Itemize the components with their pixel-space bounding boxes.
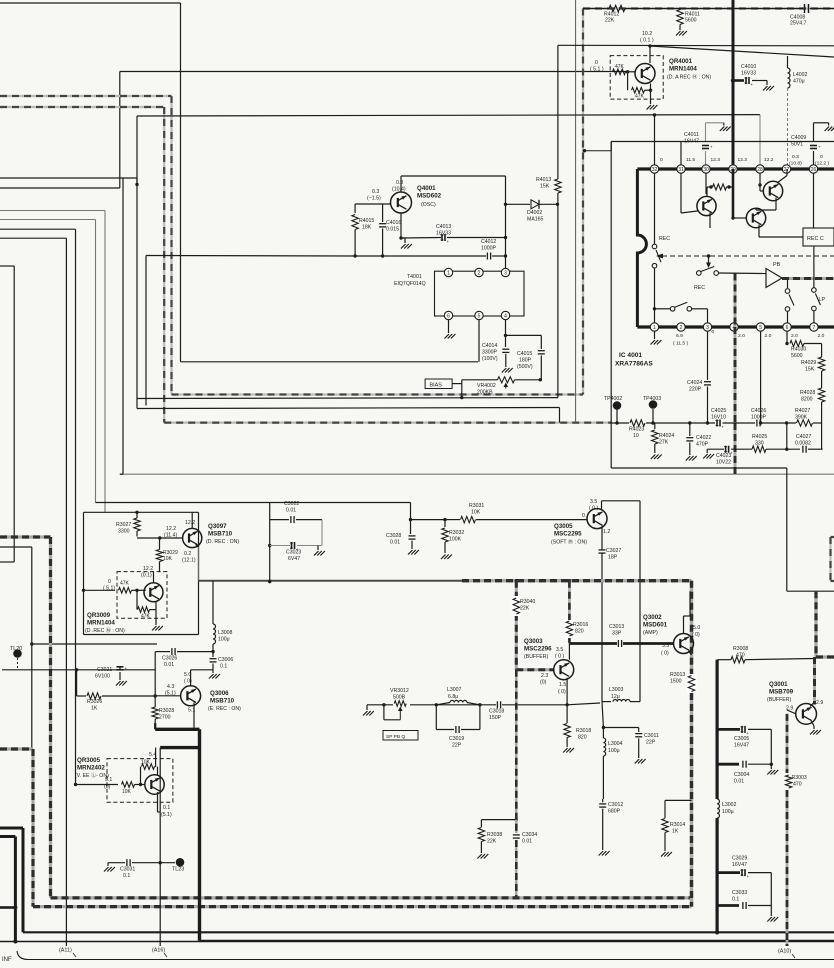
svg-text:L4002: L4002 — [793, 72, 808, 78]
svg-text:R4024: R4024 — [659, 433, 674, 439]
wire Q4001 base — [355, 203, 390, 205]
svg-text:50V1: 50V1 — [791, 142, 803, 148]
svg-text:330: 330 — [755, 441, 764, 447]
svg-text:500B: 500B — [393, 695, 406, 701]
svg-text:15K: 15K — [805, 367, 815, 373]
ground QR3009 — [152, 626, 157, 631]
transistor QR4001 — [635, 64, 655, 84]
svg-text:10K: 10K — [163, 556, 173, 562]
box IC section — [610, 142, 612, 469]
svg-text:C3004: C3004 — [734, 772, 749, 778]
svg-text:R3031: R3031 — [469, 503, 484, 509]
svg-text:1: 1 — [653, 325, 656, 331]
svg-text:16V33: 16V33 — [741, 71, 756, 77]
svg-text:0.3: 0.3 — [792, 154, 799, 160]
svg-text:C3023: C3023 — [286, 550, 301, 556]
svg-text:D4002: D4002 — [527, 210, 542, 216]
svg-text:+: + — [751, 82, 754, 87]
svg-text:L3008: L3008 — [218, 630, 233, 636]
wire QR4001 emitter — [650, 84, 652, 105]
svg-text:16V10: 16V10 — [711, 415, 726, 421]
ic IC4001 top bar — [637, 167, 834, 170]
resistor 47K QR4001 base — [613, 69, 626, 75]
svg-text:( 0.1 ): ( 0.1 ) — [640, 38, 654, 44]
capacitor C4009 — [813, 123, 815, 141]
svg-text:0: 0 — [712, 329, 715, 335]
svg-text:C4010: C4010 — [741, 64, 756, 70]
wire entry left y178 — [0, 177, 137, 179]
svg-text:1000P: 1000P — [751, 415, 767, 421]
svg-text:0: 0 — [820, 154, 823, 160]
switch REC internal — [652, 244, 657, 249]
inductor L4002 — [787, 56, 789, 68]
wire Q3003 emitter — [566, 678, 568, 705]
svg-text:REC: REC — [659, 236, 670, 242]
resistor R4011 — [677, 10, 683, 25]
capacitor C4012 — [486, 253, 488, 260]
wire Q3097 base — [137, 537, 183, 539]
wire top rail y72 — [120, 71, 628, 73]
testpoint TL23 — [176, 858, 185, 867]
capacitor C3013 — [617, 640, 619, 647]
capacitor C3005 — [717, 728, 740, 731]
pin 31 IC4001 — [677, 165, 685, 173]
svg-text:12.2: 12.2 — [166, 526, 176, 532]
wire R3014 branch — [665, 799, 692, 801]
svg-text:3.5: 3.5 — [590, 499, 597, 505]
resistor R3032 — [444, 520, 446, 527]
svg-text:22K: 22K — [487, 839, 497, 845]
pin 30 IC4001 — [702, 165, 710, 173]
svg-text:C4011: C4011 — [684, 132, 699, 138]
svg-text:L3003: L3003 — [609, 687, 624, 693]
pin 6 T4001 — [444, 311, 452, 319]
wire PB out — [782, 277, 834, 280]
wire T1 collector resistor — [706, 187, 708, 197]
svg-text:0.01: 0.01 — [286, 508, 296, 514]
ground C4022 — [686, 456, 691, 461]
svg-text:MSC2295: MSC2295 — [554, 531, 582, 538]
box Q4001 bottom — [136, 116, 138, 409]
ground C3028 — [408, 550, 413, 555]
wire Q3001 emitter — [811, 721, 814, 727]
svg-text:C4016: C4016 — [386, 220, 401, 226]
svg-text:18K: 18K — [362, 225, 372, 231]
wire pin31 internal — [680, 142, 682, 165]
svg-text:(OSC): (OSC) — [421, 202, 436, 208]
shield gray1 — [0, 535, 51, 538]
svg-text:Q3003: Q3003 — [524, 638, 543, 645]
svg-text:8200: 8200 — [801, 397, 813, 403]
svg-text:C3005: C3005 — [734, 736, 749, 742]
wire pin1 ground — [654, 331, 656, 339]
svg-text:(0.1): (0.1) — [141, 573, 152, 579]
svg-text:MSD602: MSD602 — [417, 193, 442, 200]
wire gray right edge — [690, 581, 693, 674]
wire bottom y941 — [0, 941, 834, 943]
svg-text:100μ: 100μ — [218, 637, 230, 643]
wire pin32 top feed — [654, 115, 656, 165]
svg-text:25V4.7: 25V4.7 — [790, 21, 807, 27]
svg-text:1K: 1K — [91, 706, 98, 712]
wire BIAS stub — [452, 383, 462, 385]
svg-text:( 11.5 ): ( 11.5 ) — [673, 341, 689, 347]
svg-text:3: 3 — [706, 325, 709, 331]
svg-text:22K: 22K — [520, 606, 530, 612]
pin 1 T4001 — [444, 268, 452, 276]
wire vertical x119.8 — [119, 72, 121, 189]
wire pin30 internal — [705, 173, 707, 194]
capacitor C3029 — [717, 871, 740, 874]
svg-text:7: 7 — [813, 325, 816, 331]
svg-text:(D. REC : ON): (D. REC : ON) — [206, 539, 239, 545]
capacitor C4014 — [502, 348, 509, 350]
svg-text:R3008: R3008 — [733, 646, 748, 652]
svg-text:0.1: 0.1 — [123, 873, 130, 879]
svg-text:INF: INF — [2, 957, 12, 963]
svg-text:Q3005: Q3005 — [554, 523, 573, 530]
svg-text:12.3: 12.3 — [738, 157, 748, 163]
svg-text:REC C: REC C — [807, 236, 824, 242]
wire x269 vertical — [269, 503, 271, 520]
wire C4015 branch — [506, 334, 542, 336]
svg-text:C4024: C4024 — [687, 380, 702, 386]
svg-text:QR3005: QR3005 — [77, 757, 101, 764]
svg-text:XRA7786AS: XRA7786AS — [615, 361, 653, 368]
capacitor C3021 — [119, 666, 121, 670]
svg-text:2: 2 — [478, 270, 481, 276]
shield dashed box top-right — [582, 9, 584, 395]
svg-text:+: + — [722, 425, 725, 430]
svg-text:R4025: R4025 — [752, 434, 767, 440]
svg-text:0.01: 0.01 — [390, 540, 400, 546]
svg-text:1500: 1500 — [670, 679, 682, 685]
svg-text:(BUFFER): (BUFFER) — [767, 697, 791, 703]
svg-text:1.2: 1.2 — [603, 529, 610, 535]
svg-text:MSC2296: MSC2296 — [524, 646, 552, 653]
svg-text:10K: 10K — [122, 789, 132, 795]
svg-text:0.1: 0.1 — [163, 805, 170, 811]
capacitor C4027 — [802, 446, 804, 453]
box Q3097 — [84, 511, 199, 513]
svg-text:2.9: 2.9 — [816, 700, 823, 706]
wire black step1 — [0, 827, 23, 830]
resistor R3008 — [731, 657, 745, 663]
svg-text:2.0: 2.0 — [765, 333, 772, 339]
box REC CTL — [803, 228, 834, 246]
svg-text:TL23: TL23 — [172, 867, 184, 873]
svg-text:2.0: 2.0 — [791, 333, 798, 339]
wire y449 branch — [707, 448, 724, 450]
svg-text:31: 31 — [678, 167, 684, 173]
svg-text:27K: 27K — [659, 440, 669, 446]
resistor 10K QR3005 top — [142, 764, 155, 770]
svg-text:220P: 220P — [689, 387, 702, 393]
pin 2 T4001 — [475, 268, 483, 276]
potentiometer VR3012 — [394, 701, 406, 707]
svg-text:C3031: C3031 — [120, 867, 135, 873]
svg-text:0.01: 0.01 — [164, 662, 174, 668]
wire pin6 gnd — [448, 320, 450, 333]
svg-text:0.1: 0.1 — [732, 897, 739, 903]
wire branch y644 — [30, 642, 33, 645]
svg-text:0: 0 — [108, 579, 111, 585]
wire exit left y188 — [0, 187, 120, 189]
wire pin4 down — [505, 320, 507, 347]
svg-text:(V. EE Ⓛ- ON): (V. EE Ⓛ- ON) — [75, 771, 109, 779]
svg-text:R3040: R3040 — [520, 599, 535, 605]
svg-text:100μ: 100μ — [608, 748, 620, 754]
svg-text:( 0): ( 0) — [661, 651, 669, 657]
capacitor C4024 — [707, 331, 709, 380]
svg-text:22K: 22K — [605, 18, 615, 24]
pin 3 T4001 — [501, 268, 509, 276]
ground C3023 — [314, 551, 319, 556]
svg-text:16V47: 16V47 — [732, 862, 747, 868]
transistor Q3006 — [181, 686, 201, 706]
svg-text:33P: 33P — [612, 631, 622, 637]
ground pin1 — [651, 340, 656, 345]
wire gray long y474 — [120, 473, 834, 475]
svg-text:VR4002: VR4002 — [477, 383, 496, 389]
shield dashed B — [0, 106, 164, 108]
switch SW6 — [787, 280, 789, 288]
svg-text:R3028: R3028 — [159, 708, 174, 714]
svg-text:5.0: 5.0 — [693, 625, 700, 631]
wire T2 collector — [777, 176, 787, 184]
ground QR4001 — [647, 105, 652, 110]
svg-text:R3016: R3016 — [573, 622, 588, 628]
capacitor C4010 — [731, 78, 735, 82]
resistor 47K QR4001 fb — [627, 72, 629, 90]
svg-text:MA165: MA165 — [527, 217, 544, 223]
wire y115 bus — [137, 115, 760, 116]
svg-text:3.5: 3.5 — [556, 647, 563, 653]
svg-text:+: + — [747, 874, 750, 879]
capacitor C3012 — [599, 803, 606, 805]
wire thick pin4 shield — [734, 274, 737, 328]
wire C-shape left — [0, 265, 14, 267]
inductor L3003 — [602, 701, 611, 703]
resistor R3026 — [87, 693, 101, 699]
box QR4001 dashed — [610, 56, 663, 100]
switch SW7 LP — [813, 246, 815, 288]
wire TL20 rail — [2, 669, 155, 671]
svg-text:6V47: 6V47 — [288, 556, 300, 562]
wire L3004 column — [602, 702, 603, 728]
resistor R3013 — [687, 674, 697, 693]
svg-text:10K: 10K — [141, 760, 151, 766]
svg-text:1000P: 1000P — [481, 246, 497, 252]
svg-text:(5.1): (5.1) — [161, 812, 172, 818]
wire Q3005 collector — [601, 501, 603, 511]
svg-text:T4001: T4001 — [407, 274, 422, 280]
svg-text:QR4001: QR4001 — [669, 58, 693, 65]
wire shield stub — [583, 150, 611, 152]
svg-text:22P: 22P — [646, 740, 656, 746]
capacitor C4022 — [689, 423, 691, 436]
svg-text:L3007: L3007 — [447, 687, 462, 693]
capacitor C3031 — [126, 859, 128, 866]
resistor 47K QR3009 — [119, 588, 132, 594]
ground R4011 — [676, 31, 681, 36]
svg-text:( 5.1 ): ( 5.1 ) — [590, 67, 604, 73]
wire Q3097 collector — [191, 512, 193, 528]
ground C4014 — [502, 368, 507, 373]
capacitor C3006 — [212, 652, 214, 657]
wire QR3005 collector — [157, 767, 159, 775]
svg-text:10.2: 10.2 — [642, 31, 652, 37]
svg-text:C3013: C3013 — [609, 624, 624, 630]
svg-text:11.5: 11.5 — [686, 157, 695, 163]
svg-text:C4025: C4025 — [711, 408, 726, 414]
wire thick elbow2 — [160, 746, 199, 749]
svg-text:Q3097: Q3097 — [208, 523, 227, 530]
resistor R4024 — [654, 423, 656, 429]
svg-text:150P: 150P — [489, 715, 502, 721]
ground C3011 — [635, 759, 640, 764]
capacitor C4026 — [756, 420, 758, 427]
ground C3006 — [209, 674, 214, 679]
wire T1 emitter — [709, 213, 711, 229]
svg-text:( 0 ): ( 0 ) — [555, 654, 564, 660]
resistor R3016 — [568, 581, 571, 644]
wire R3040 shield branch — [515, 581, 518, 670]
ground C4011 — [720, 127, 725, 132]
wire dashed control — [662, 255, 834, 257]
pin 28 IC4001 — [756, 165, 764, 173]
svg-text:30: 30 — [703, 167, 709, 173]
wire Q3001 collector — [810, 703, 814, 707]
wire bus to T4001 pin5 — [181, 361, 479, 363]
wire pin1 internal — [654, 173, 656, 244]
capacitor C4015 — [538, 350, 545, 352]
wire Q3002 emitter — [689, 651, 692, 656]
capacitor C4011 — [705, 123, 707, 141]
pin 32 IC4001 — [650, 165, 658, 173]
wire x575 vertical — [575, 0, 577, 423]
svg-text:MSB710: MSB710 — [210, 698, 235, 705]
pin 1 IC4001 — [650, 323, 658, 331]
svg-text:5600: 5600 — [791, 353, 803, 359]
amp PB — [766, 269, 782, 288]
svg-text:C3026: C3026 — [162, 656, 177, 662]
svg-text:4: 4 — [504, 313, 507, 319]
svg-text:4.3: 4.3 — [167, 684, 174, 690]
testpoint TP4003 — [649, 400, 658, 409]
svg-text:R3027: R3027 — [116, 522, 131, 528]
svg-text:EIQ7QF014Q: EIQ7QF014Q — [394, 281, 426, 287]
wire pin3 vertical — [505, 176, 507, 269]
svg-text:(10.8): (10.8) — [789, 161, 802, 167]
capacitor C3026 — [171, 648, 173, 655]
wire x410 down — [410, 503, 412, 520]
svg-text:470μ: 470μ — [793, 79, 805, 85]
wire left y547 — [0, 546, 32, 548]
svg-text:0.3: 0.3 — [372, 189, 379, 195]
switch REC2 — [697, 271, 702, 276]
wire QR3005 base rail — [74, 783, 77, 786]
wire y397 to R4013 column — [137, 397, 558, 400]
svg-text:2.0: 2.0 — [818, 333, 825, 339]
svg-text:(SOFT Ⓡ : ON): (SOFT Ⓡ : ON) — [551, 538, 587, 546]
box QR3009 dashed — [117, 572, 167, 619]
transistor IC-T3 — [746, 208, 765, 227]
svg-text:R4027: R4027 — [795, 408, 810, 414]
wire main y423 — [612, 422, 629, 424]
wire pin28 internal — [759, 173, 761, 191]
svg-text:5: 5 — [478, 313, 481, 319]
pin 4 T4001 — [501, 311, 509, 319]
transistor Q3003 — [554, 660, 574, 680]
svg-text:0.015: 0.015 — [386, 227, 399, 233]
wire bottom y958 — [17, 951, 834, 960]
ic IC4001 left edge — [637, 169, 646, 327]
ground R4024 — [651, 455, 656, 460]
ground C4010 — [763, 86, 768, 91]
transistor Q3097 — [183, 528, 202, 547]
svg-text:R3013: R3013 — [670, 672, 685, 678]
resistor R3031 — [461, 516, 476, 522]
wire L4002 to pin27 — [787, 88, 789, 165]
ic IC4001 bottom bar — [637, 325, 834, 328]
ground C3012 — [599, 851, 604, 856]
pin 4 IC4001 — [730, 323, 738, 331]
svg-text:VR3012: VR3012 — [390, 688, 409, 694]
svg-text:(A10): (A10) — [778, 949, 791, 955]
wire staircase y238 A11 — [0, 237, 66, 239]
svg-text:16V47: 16V47 — [734, 743, 749, 749]
svg-text:C4015: C4015 — [517, 351, 532, 357]
svg-text:( 0): ( 0) — [692, 632, 700, 638]
svg-text:1.5: 1.5 — [559, 682, 566, 688]
box SP PB Q — [383, 731, 418, 741]
wire R3031 rail — [411, 519, 446, 521]
resistor R4013 — [555, 179, 561, 193]
svg-text:47K: 47K — [635, 94, 645, 100]
box BIAS — [425, 379, 452, 389]
svg-text:12.2: 12.2 — [185, 520, 195, 526]
diode D4002 — [506, 203, 531, 205]
ground R3018 — [563, 748, 568, 753]
svg-text:47K: 47K — [120, 581, 130, 587]
pin 2 IC4001 — [677, 323, 685, 331]
wire thick y643 — [569, 642, 617, 645]
wire QR3009 emitter — [155, 602, 157, 610]
resistor R4028 — [818, 388, 824, 402]
wire R3008 rail — [717, 659, 731, 661]
wire thick x733 — [732, 0, 735, 169]
resistor 47K QR3009 fb — [136, 590, 138, 609]
svg-text:L3004: L3004 — [608, 741, 623, 747]
svg-text:680P: 680P — [608, 809, 621, 815]
svg-text:12μ: 12μ — [611, 694, 620, 700]
shield gray2 — [0, 747, 33, 750]
svg-text:C3028: C3028 — [386, 533, 401, 539]
svg-text:3: 3 — [504, 270, 507, 276]
svg-text:C3034: C3034 — [522, 832, 537, 838]
wire Q3097 emitter — [196, 545, 199, 548]
svg-text:PB: PB — [773, 262, 781, 268]
transistor Q4001 — [391, 192, 412, 213]
ground VR3012 — [363, 711, 368, 716]
capacitor C4008 — [804, 4, 806, 13]
svg-text:0.01: 0.01 — [734, 779, 744, 785]
resistor R4023 — [630, 420, 645, 426]
svg-text:C3019: C3019 — [449, 736, 464, 742]
resistor 10K QR3005 left — [122, 782, 135, 788]
wire QR3005 emitter — [157, 792, 159, 812]
